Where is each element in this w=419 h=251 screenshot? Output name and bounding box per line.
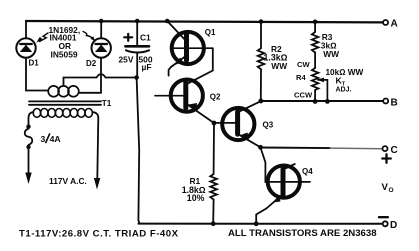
transistor Q4 [266,164,313,209]
wire Q1 collector diagonal [167,21,186,41]
transformer core [29,101,101,104]
svg-text:O: O [389,187,394,194]
svg-text:ALL TRANSISTORS ARE 2N3638: ALL TRANSISTORS ARE 2N3638 [228,228,377,239]
diode D1 [16,38,39,67]
wire B rail [261,100,383,102]
transformer T1 secondary winding [48,86,79,97]
svg-text:ADJ.: ADJ. [336,86,352,93]
svg-text:T1: T1 [102,99,112,108]
node Q3 collector / R2 / B rail junction [258,99,263,104]
wire primary right leg with arrow [92,112,100,190]
terminal A [383,18,398,29]
label arrow to D1 [36,33,48,43]
svg-text:D1: D1 [29,59,40,68]
node R4 bottom junction [313,99,318,104]
node R2 top junction [259,19,264,24]
terminal D [379,217,397,231]
svg-text:WW: WW [323,49,339,59]
wiper arrow [318,80,327,102]
node Q4 emitter bottom junction [254,221,259,226]
wire D2 vertical top [100,21,102,38]
node center tap junction [134,75,139,80]
node Q2 emitter / Q3 base / R1 junction [212,121,217,126]
node wiper bottom junction [325,99,330,104]
transistor Q1 [171,28,216,67]
wire C rail [261,147,331,150]
svg-text:10%: 10% [187,193,205,203]
svg-text:T1-117V:26.8V C.T. TRIAD F-40X: T1-117V:26.8V C.T. TRIAD F-40X [19,229,179,240]
node Q3 emitter / C rail junction [258,145,263,150]
svg-text:D2: D2 [86,59,97,68]
svg-text:Q4: Q4 [302,167,313,176]
node Q1 collector junction [165,19,170,24]
svg-text:A: A [391,18,398,29]
svg-text:C1: C1 [140,33,151,43]
wire left AC lead with arrow [25,149,31,184]
svg-text:Q1: Q1 [205,28,216,37]
svg-text:R4: R4 [296,73,306,82]
fuse 3/4A [25,124,61,149]
node C1 top junction [135,19,140,24]
wire ground bus vertical [137,78,140,224]
diode D2 [86,38,111,68]
terminal C [382,145,397,163]
transformer T1 primary winding [33,109,92,118]
wire center tap with hop over D2 lead [64,74,137,86]
svg-text:3: 3 [41,134,46,144]
resistor R2 [258,22,288,101]
svg-text:B: B [391,98,398,109]
svg-text:WW: WW [271,61,287,71]
svg-text:4A: 4A [50,134,61,144]
terminal B [383,98,398,109]
svg-text:CW: CW [297,60,310,69]
wire Q2 base lead [155,95,186,97]
wire Q1 emitter stub [169,67,171,76]
node R3 top junction [313,20,318,25]
wire Q4 emitter to bottom rail [256,209,266,224]
svg-text:CCW: CCW [294,91,313,100]
transistor Q3 [222,101,274,147]
label Vo [382,182,394,194]
wire bottom rail [139,223,383,225]
capacitor C1 [119,21,153,78]
svg-text:Q3: Q3 [263,120,274,129]
wire primary left leg [29,112,34,126]
potentiometer R4 [294,60,363,101]
wire D1 to secondary [26,58,48,91]
wire Q4 base from C node [261,148,269,183]
label arrow to D2 [83,32,96,42]
svg-text:10kΩ WW: 10kΩ WW [326,68,364,77]
node R1 bottom junction [211,221,216,226]
wire Q1 base to Q2 collector [186,48,213,84]
svg-text:117V A.C.: 117V A.C. [49,176,87,186]
svg-text:25V: 25V [119,55,134,65]
wire D2 vertical to winding [100,58,102,93]
transistor Q2 [171,80,221,124]
node D2 top junction [99,19,104,24]
wire D1 vertical top [25,21,27,38]
svg-text:C: C [391,145,398,156]
wire Q3 base lead [214,122,238,124]
resistor R3 [312,22,339,68]
diode label 1N1692 IN4001 OR 1N5059 [49,25,81,59]
svg-text:IN5059: IN5059 [51,49,78,59]
svg-text:D: D [390,220,397,231]
svg-text:Q2: Q2 [210,93,221,102]
wire top rail [26,21,383,22]
svg-text:V: V [382,182,389,193]
svg-text:µF: µF [142,62,152,72]
wire secondary right lead [79,92,101,94]
resistor R1 [182,123,217,224]
